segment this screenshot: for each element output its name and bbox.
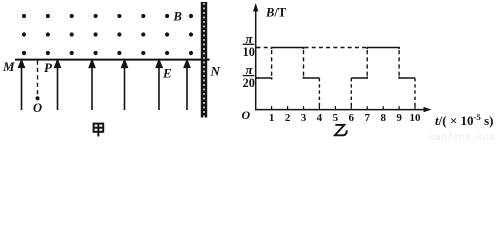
svg-text:N: N xyxy=(210,64,221,79)
dashed level pi/10 segment b xyxy=(305,47,367,49)
svg-text:P: P xyxy=(44,60,53,75)
arrow 6 xyxy=(186,66,188,111)
svg-text:10: 10 xyxy=(243,45,255,59)
svg-text:t/( × 10-5 s): t/( × 10-5 s) xyxy=(435,112,493,128)
fraction pi/20 xyxy=(243,62,255,90)
dashed step vertical t=9 xyxy=(398,50,400,76)
dashed vertical t=10 xyxy=(414,78,416,109)
svg-text:9: 9 xyxy=(396,112,402,124)
dashed vertical t=6 xyxy=(350,78,352,109)
svg-text:7: 7 xyxy=(364,112,370,124)
svg-text:4: 4 xyxy=(317,112,323,124)
svg-text:2: 2 xyxy=(285,112,291,124)
upward arrows (particle beam) xyxy=(19,60,190,110)
dashed level pi/10 segment a xyxy=(257,47,272,49)
caption 甲 (drawn) xyxy=(94,124,104,137)
arrow 1 xyxy=(21,66,23,111)
dashed vertical t=4 xyxy=(318,78,320,109)
field dots (B out of page) xyxy=(22,14,193,55)
point O dot xyxy=(35,96,39,100)
svg-text:E: E xyxy=(162,66,172,81)
arrow 4 xyxy=(124,66,126,111)
B(t) waveform solid horizontals part 1 xyxy=(256,48,320,80)
dashed guide from line to point O xyxy=(37,61,39,96)
dashed step vertical t=3 xyxy=(303,50,305,76)
svg-text:8: 8 xyxy=(380,112,386,124)
y tick pi/10 xyxy=(256,47,259,49)
dashed step vertical t=7 xyxy=(366,50,368,76)
caption 乙 (drawn) xyxy=(335,125,347,135)
x ticks xyxy=(272,106,415,110)
svg-text:10: 10 xyxy=(410,112,422,124)
svg-text:manfen5.com: manfen5.com xyxy=(429,132,495,141)
svg-text:M: M xyxy=(2,59,15,74)
x tick numbers xyxy=(269,112,421,124)
svg-text:O: O xyxy=(33,101,42,115)
fraction pi/10 xyxy=(243,31,255,59)
svg-text:1: 1 xyxy=(269,112,275,124)
svg-text:6: 6 xyxy=(349,112,355,124)
svg-text:B/T: B/T xyxy=(265,6,287,20)
x-axis t xyxy=(255,109,428,111)
svg-text:3: 3 xyxy=(301,112,307,124)
dashed step vertical t=1 xyxy=(271,50,273,76)
arrow 2 xyxy=(57,66,59,111)
svg-text:5: 5 xyxy=(333,112,339,124)
arrow 3 xyxy=(91,66,93,111)
svg-text:20: 20 xyxy=(243,76,255,90)
y tick pi/20 xyxy=(256,77,259,79)
hatched screen bar at N xyxy=(201,2,207,118)
svg-text:O: O xyxy=(242,108,251,122)
B(t) waveform solid horizontals part 2 xyxy=(351,48,415,79)
boundary line MN xyxy=(15,59,210,61)
arrow 5 xyxy=(158,66,160,111)
y-axis B/T xyxy=(255,8,257,110)
svg-text:B: B xyxy=(173,10,182,24)
